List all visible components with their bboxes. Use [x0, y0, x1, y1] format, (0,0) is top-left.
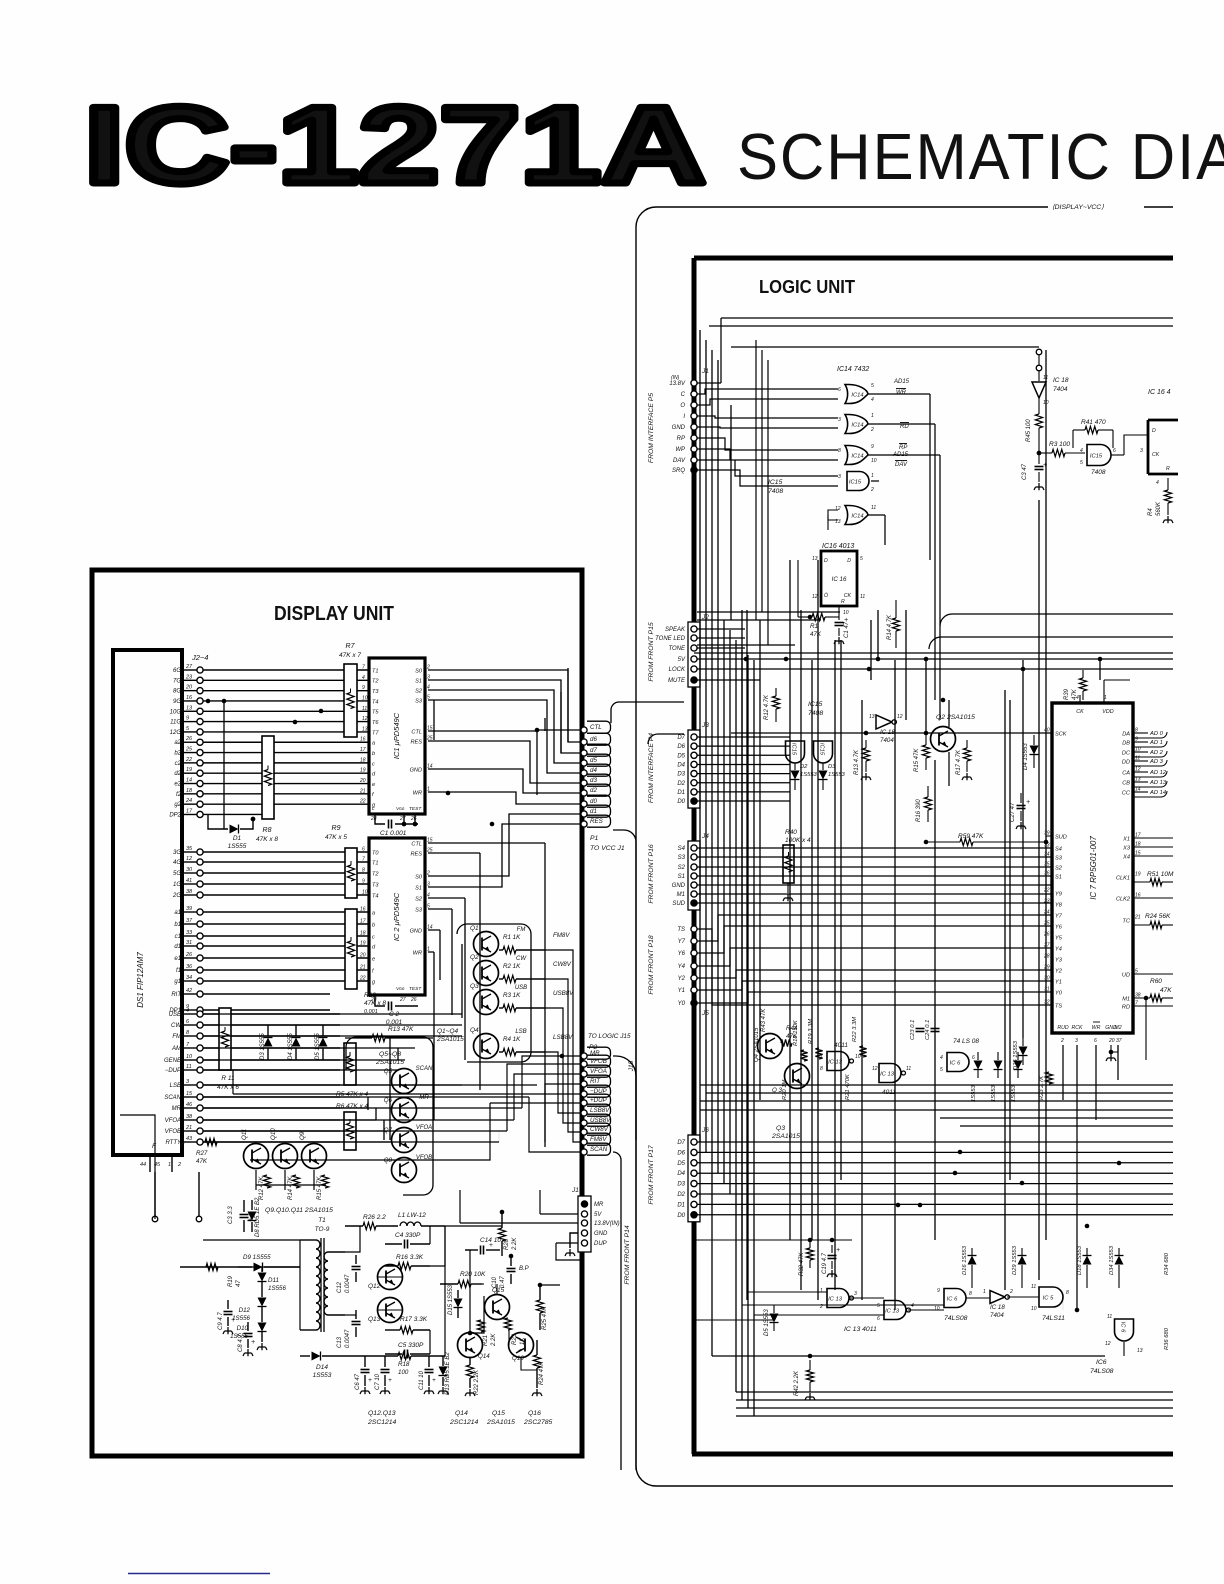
svg-text:e2: e2	[174, 782, 181, 788]
svg-text:R20 10K: R20 10K	[460, 1271, 486, 1278]
svg-text:DUP: DUP	[594, 1241, 607, 1247]
svg-text:7404: 7404	[880, 737, 894, 744]
svg-text:Y1: Y1	[1055, 979, 1062, 985]
wire channel FM8V to flag	[545, 950, 581, 1142]
svg-text:41: 41	[186, 878, 192, 884]
svg-text:D6: D6	[677, 1150, 685, 1156]
svg-text:AD 0: AD 0	[1149, 731, 1164, 737]
svg-text:S1: S1	[678, 874, 685, 880]
svg-text:33: 33	[186, 930, 193, 936]
svg-text:1K: 1K	[520, 1337, 526, 1345]
svg-text:C11 10: C11 10	[419, 1370, 425, 1390]
svg-text:c: c	[372, 934, 375, 940]
svg-text:J2~4: J2~4	[191, 653, 208, 662]
svg-text:D34 1S553: D34 1S553	[1109, 1245, 1115, 1275]
svg-text:27: 27	[399, 997, 406, 1003]
svg-text:T7: T7	[372, 730, 379, 736]
svg-text:AD 1: AD 1	[1149, 740, 1163, 746]
svg-text:2SC1214: 2SC1214	[449, 1419, 479, 1426]
svg-text:R24 47K: R24 47K	[539, 1361, 545, 1385]
net flag −DUP	[581, 1091, 587, 1097]
svg-text:47K x 8: 47K x 8	[256, 836, 278, 843]
transistor Q12	[378, 1265, 403, 1290]
svg-text:a2: a2	[174, 740, 181, 746]
wire 4G row	[203, 861, 369, 863]
svg-text:19: 19	[360, 768, 366, 774]
wire bus J2/J3 rows	[697, 629, 1173, 801]
svg-text:FROM INTERFACE P5: FROM INTERFACE P5	[648, 393, 655, 463]
connector J6 pin D7	[691, 1139, 697, 1145]
svg-text:GND: GND	[672, 883, 686, 889]
svg-text:Q9: Q9	[299, 1131, 306, 1140]
svg-text:Q14: Q14	[455, 1410, 468, 1417]
connector J5 pin Y2	[691, 975, 697, 981]
net flag AD 0	[1133, 732, 1148, 734]
svg-text:21: 21	[185, 1125, 192, 1131]
svg-text:D5 1S553: D5 1S553	[764, 1309, 770, 1336]
svg-text:3: 3	[838, 417, 841, 423]
svg-text:d2: d2	[174, 771, 181, 777]
svg-text:13: 13	[812, 556, 818, 562]
svg-text:26: 26	[410, 816, 417, 822]
wire 7G to IC1 T2	[203, 679, 369, 681]
svg-text:12: 12	[186, 856, 192, 862]
net flag d0	[581, 801, 587, 807]
connector J4 pin S4	[691, 845, 697, 851]
svg-text:IC15: IC15	[819, 743, 825, 756]
svg-text:SCAN: SCAN	[590, 1146, 608, 1153]
svg-text:AD 3: AD 3	[1149, 759, 1164, 765]
svg-text:b2: b2	[174, 751, 181, 757]
ground C1 logic	[834, 637, 844, 644]
svg-text:24: 24	[185, 798, 192, 804]
wire VFOB row	[203, 1130, 340, 1132]
svg-text:CLK2: CLK2	[1116, 896, 1131, 902]
resistor R12	[263, 1175, 270, 1188]
svg-text:DAV: DAV	[895, 462, 908, 468]
svg-text:CW: CW	[516, 956, 527, 962]
svg-text:2SA1015: 2SA1015	[771, 1133, 800, 1140]
svg-text:100K x 4: 100K x 4	[785, 837, 811, 844]
svg-text:Q10: Q10	[270, 1128, 277, 1140]
svg-text:C6 47: C6 47	[355, 1373, 361, 1390]
svg-text:IC 13: IC 13	[885, 1308, 900, 1314]
svg-text:D7: D7	[677, 735, 685, 741]
svg-text:WR: WR	[1092, 1025, 1101, 1031]
wire −DUP row	[203, 1069, 340, 1071]
transistor Q5	[392, 1069, 417, 1094]
wire bottom supply rail	[120, 1115, 155, 1219]
svg-text:5: 5	[871, 383, 874, 389]
svg-text:R17 4.7K: R17 4.7K	[956, 749, 962, 775]
svg-text:DC: DC	[1122, 750, 1131, 756]
wire bus logic mid verticals	[731, 350, 1100, 1310]
svg-text:+: +	[388, 1377, 392, 1384]
svg-text:C8 4.7: C8 4.7	[238, 1334, 244, 1352]
net flag AD 12	[1133, 771, 1148, 773]
svg-text:13: 13	[362, 726, 368, 732]
svg-text:RIT: RIT	[590, 1078, 601, 1085]
svg-text:R34 680: R34 680	[1164, 1252, 1170, 1275]
svg-text:10: 10	[362, 695, 368, 701]
ground IC7 GND	[1110, 1045, 1112, 1052]
svg-text:Y7: Y7	[1055, 913, 1063, 919]
svg-text:T2: T2	[372, 871, 379, 877]
svg-text:Q1: Q1	[470, 925, 479, 932]
wire 8G to IC1 T3	[203, 690, 369, 692]
wire 12G to IC1 T7	[203, 731, 369, 733]
svg-text:WP: WP	[675, 447, 685, 453]
connector J2 pin MUTE	[691, 677, 697, 683]
gate IC15 7408 (right)	[1087, 445, 1111, 466]
svg-text:11: 11	[186, 1064, 192, 1070]
svg-text:LSB: LSB	[515, 1029, 526, 1035]
svg-text:R: R	[841, 599, 845, 605]
svg-text:DAV: DAV	[673, 458, 686, 464]
wire P2 staircase VFOB	[507, 1064, 581, 1131]
svg-text:Q3: Q3	[470, 983, 479, 990]
wire top bus to IC18	[721, 317, 1173, 319]
transistor Q13	[378, 1298, 403, 1323]
svg-text:D29 1S553: D29 1S553	[1012, 1245, 1018, 1275]
svg-text:S0: S0	[415, 668, 423, 674]
wire bus logic lower horizontals	[712, 1356, 1173, 1416]
svg-text:R12 4.7K: R12 4.7K	[764, 694, 770, 720]
wire DS1 bottom leads	[149, 1155, 151, 1172]
svg-text:22: 22	[359, 799, 366, 805]
svg-text:RP: RP	[677, 436, 685, 442]
svg-text:R41 470: R41 470	[1081, 419, 1106, 426]
svg-text:7404: 7404	[1053, 386, 1068, 393]
wire 10G to IC1 T5	[203, 710, 369, 712]
svg-text:⟨DISPLAY~VCC⟩: ⟨DISPLAY~VCC⟩	[1052, 203, 1104, 211]
svg-text:MUTE: MUTE	[668, 678, 686, 684]
svg-text:B.P: B.P	[519, 1266, 529, 1272]
svg-text:P1: P1	[590, 835, 599, 842]
svg-text:Q16: Q16	[528, 1410, 541, 1417]
connector J1 pin SRQ	[691, 467, 697, 473]
svg-text:CC: CC	[1122, 790, 1131, 796]
transistor Q16	[509, 1333, 534, 1358]
svg-text:C24 0.1: C24 0.1	[925, 1020, 931, 1040]
svg-text:RD: RD	[1122, 1004, 1130, 1010]
net flag VFOB	[581, 1061, 587, 1067]
svg-text:1S553: 1S553	[313, 1372, 332, 1379]
wire P2 staircase +DUP	[250, 1103, 490, 1160]
svg-text:1G: 1G	[173, 882, 181, 888]
svg-text:7408: 7408	[1091, 469, 1106, 476]
net flag d1	[581, 811, 587, 817]
svg-text:DA: DA	[1122, 731, 1130, 737]
svg-text:+: +	[231, 1317, 235, 1324]
svg-text:R13 47K: R13 47K	[388, 1026, 414, 1033]
wire DP1 row	[203, 1009, 330, 1011]
svg-text:11: 11	[362, 706, 367, 712]
wire g1 row	[203, 980, 369, 982]
svg-text:Q2 2SA1015: Q2 2SA1015	[936, 714, 975, 721]
net label DISPLAY~VCC	[1048, 200, 1144, 212]
svg-text:O: O	[680, 403, 685, 409]
svg-text:8: 8	[820, 1066, 823, 1072]
svg-text:R13 4.7K: R13 4.7K	[854, 749, 860, 775]
svg-text:TS: TS	[677, 927, 685, 933]
wire P2 staircase RIT	[545, 1084, 581, 1142]
connector J3 pin D0	[691, 798, 697, 804]
wire bus extra verticals top	[756, 340, 768, 645]
wire CW row	[203, 1024, 340, 1026]
svg-text:Vɢɢ: Vɢɢ	[396, 806, 405, 812]
svg-text:FROM FRONT P17: FROM FRONT P17	[648, 1145, 655, 1205]
connector J4 pin S1	[691, 873, 697, 879]
wire row to Q12 area	[345, 1226, 360, 1252]
svg-text:S3: S3	[415, 907, 423, 913]
svg-text:UD: UD	[1122, 972, 1130, 978]
svg-text:6: 6	[838, 387, 841, 393]
wire channel CW8V to flag	[545, 979, 581, 1132]
wire b1 row	[203, 923, 369, 925]
gate IC15 #3 (vertical)	[786, 741, 805, 763]
svg-text:2SA1015: 2SA1015	[486, 1419, 515, 1426]
svg-text:C19 4.7: C19 4.7	[822, 1252, 828, 1274]
inverter IC18 7404 (mid)	[876, 715, 892, 729]
svg-text:SCAN: SCAN	[164, 1095, 181, 1101]
gate IC13 #2 4011	[879, 1064, 901, 1083]
svg-text:WR: WR	[896, 390, 907, 396]
svg-text:38: 38	[186, 1114, 193, 1120]
net flag MR	[581, 1053, 587, 1059]
svg-text:e: e	[372, 782, 375, 788]
svg-text:5: 5	[1080, 460, 1083, 466]
svg-text:d1: d1	[590, 808, 597, 815]
svg-text:Ō: Ō	[824, 592, 828, 599]
svg-text:Q12.Q13: Q12.Q13	[368, 1410, 396, 1417]
svg-text:11: 11	[860, 594, 865, 600]
svg-text:R10: R10	[364, 992, 376, 999]
svg-text:IC 13: IC 13	[880, 1071, 895, 1077]
svg-text:D4 1S553: D4 1S553	[1023, 743, 1029, 770]
svg-text:C5 330P: C5 330P	[398, 1342, 424, 1349]
connector J1 pin DAV	[691, 457, 697, 463]
svg-text:R19 3.3M: R19 3.3M	[808, 1019, 814, 1044]
wire d2 row	[203, 772, 369, 774]
wire CLK2	[1133, 897, 1173, 899]
junction dots display	[535, 728, 540, 733]
svg-text:3G: 3G	[173, 850, 181, 856]
svg-text:D1: D1	[233, 835, 242, 842]
net flag d7	[581, 750, 587, 756]
connector J2 pin SPEAK	[691, 626, 697, 632]
svg-text:SRQ: SRQ	[672, 468, 685, 474]
svg-text:27: 27	[185, 664, 193, 670]
wire a2 row	[203, 741, 369, 743]
ground R4	[1163, 516, 1173, 523]
svg-text:IC14 7432: IC14 7432	[837, 366, 869, 373]
svg-text:SCK: SCK	[1055, 731, 1067, 737]
connector J6 pin D2	[691, 1191, 697, 1197]
svg-text:R15 47K: R15 47K	[317, 1176, 323, 1200]
svg-text:R15 47K: R15 47K	[914, 748, 920, 772]
wire e1 row	[203, 957, 369, 959]
connector J3	[688, 730, 700, 808]
svg-text:Y4: Y4	[1055, 946, 1062, 952]
transistor Q10	[273, 1144, 298, 1169]
svg-text:e1: e1	[174, 956, 181, 962]
svg-text:D3: D3	[677, 772, 685, 778]
svg-text:Y0: Y0	[1055, 990, 1063, 996]
svg-text:R20 1M: R20 1M	[782, 1080, 788, 1100]
svg-text:R16 390: R16 390	[916, 799, 922, 822]
wire R1 to IC16	[798, 616, 812, 618]
svg-text:FM8V: FM8V	[553, 932, 570, 939]
svg-text:FM: FM	[517, 927, 526, 933]
svg-text:C3 47: C3 47	[1022, 463, 1028, 480]
svg-text:SCAN: SCAN	[416, 1066, 433, 1072]
wire AM row	[203, 1047, 340, 1049]
svg-text:D: D	[824, 558, 828, 564]
transistor Q11	[244, 1144, 269, 1169]
connector J5 pin Y0	[691, 1000, 697, 1006]
connector J6 pin D4	[691, 1170, 697, 1176]
svg-text:GND: GND	[594, 1231, 608, 1237]
svg-text:FROM FRONT P15: FROM FRONT P15	[648, 622, 655, 682]
svg-text:S3: S3	[678, 855, 686, 861]
connector J1 pin WP	[691, 446, 697, 452]
svg-text:USB8V: USB8V	[553, 990, 574, 997]
svg-text:2: 2	[870, 427, 874, 433]
svg-text:1: 1	[983, 1289, 986, 1295]
connector J1 pin DUP	[581, 1240, 587, 1246]
wire P2 staircase MR	[522, 1056, 581, 1108]
svg-text:1: 1	[871, 413, 874, 419]
svg-text:USB: USB	[515, 985, 527, 991]
svg-text:IC14: IC14	[851, 422, 863, 428]
svg-text:R14 47K: R14 47K	[288, 1176, 294, 1200]
svg-text:21: 21	[359, 788, 366, 794]
wire UD	[1133, 973, 1173, 975]
diode D3 1S555	[267, 1025, 269, 1036]
terminal F2	[196, 1216, 202, 1222]
capacitor C1 47 (logic)	[838, 606, 840, 614]
svg-text:R36 680: R36 680	[1164, 1327, 1170, 1350]
svg-text:8: 8	[1066, 1290, 1069, 1296]
logic unit outer cable channel	[636, 207, 1173, 1486]
svg-text:R21 470K: R21 470K	[845, 1073, 851, 1100]
svg-text:D15 1S553: D15 1S553	[448, 1284, 454, 1315]
svg-text:c2: c2	[175, 761, 182, 767]
svg-text:T3: T3	[372, 689, 379, 695]
svg-text:LOCK: LOCK	[669, 667, 686, 673]
svg-text:Y3: Y3	[1055, 957, 1063, 963]
net flag AD 1	[1133, 741, 1148, 743]
svg-text:R: R	[1166, 466, 1170, 472]
svg-text:J6: J6	[701, 1127, 709, 1134]
svg-text:R27: R27	[196, 1150, 208, 1157]
svg-text:FROM FRONT P14: FROM FRONT P14	[624, 1225, 631, 1285]
resistor network R11 47Kx6	[219, 1008, 231, 1070]
svg-text:C1 47: C1 47	[844, 621, 850, 638]
svg-text:T4: T4	[372, 699, 379, 705]
wire IC7 X pins	[1133, 837, 1173, 839]
svg-text:Q16: Q16	[512, 1355, 524, 1362]
svg-text:2: 2	[1060, 1038, 1064, 1044]
wire f1 row	[203, 969, 369, 971]
svg-text:26: 26	[185, 736, 193, 742]
svg-text:+: +	[1026, 799, 1030, 806]
svg-text:D: D	[1152, 428, 1156, 434]
svg-text:8: 8	[838, 448, 841, 454]
connector J1 pin 5V	[581, 1211, 587, 1217]
svg-text:Y8: Y8	[1055, 902, 1063, 908]
svg-text:C23 0.1: C23 0.1	[910, 1020, 916, 1040]
svg-text:D0: D0	[677, 799, 685, 805]
svg-text:IC 13 4011: IC 13 4011	[844, 1326, 877, 1333]
svg-text:R6 47K x 4: R6 47K x 4	[336, 1103, 369, 1110]
svg-text:100: 100	[398, 1369, 409, 1376]
svg-text:R24 56Κ: R24 56Κ	[1145, 913, 1171, 920]
wire 6G to IC1 T1	[203, 669, 369, 671]
svg-text:8: 8	[969, 1291, 972, 1297]
svg-text:R4: R4	[1148, 508, 1154, 516]
svg-text:d1: d1	[174, 944, 181, 950]
svg-text:AD 14: AD 14	[1149, 790, 1166, 796]
svg-text:47: 47	[236, 1280, 242, 1287]
svg-text:IC 6: IC 6	[950, 1060, 961, 1066]
net flag LSB8V	[581, 1110, 587, 1116]
svg-text:SUD: SUD	[672, 901, 685, 907]
svg-text:26: 26	[185, 952, 193, 958]
wire channel USB8V to flag	[545, 1008, 581, 1123]
svg-text:74LS08: 74LS08	[944, 1315, 968, 1322]
svg-text:b1: b1	[174, 922, 181, 928]
svg-text:LSB8V: LSB8V	[590, 1107, 610, 1114]
svg-text:R60: R60	[1150, 978, 1162, 985]
svg-text:D1: D1	[677, 1202, 685, 1208]
svg-text:c1: c1	[175, 934, 181, 940]
diode D1 1S555	[208, 814, 228, 829]
wire LSB row	[203, 1084, 340, 1086]
svg-text:DB: DB	[1122, 740, 1130, 746]
svg-text:USB: USB	[169, 1012, 181, 1018]
ground R17	[962, 773, 972, 780]
resistor network R8 47Kx8	[262, 736, 274, 819]
svg-text:−DUP: −DUP	[165, 1068, 181, 1074]
wire IC15 out to IC16	[1111, 454, 1124, 456]
svg-text:6: 6	[877, 1316, 880, 1322]
svg-text:FROM FRONT P16: FROM FRONT P16	[648, 844, 655, 904]
svg-text:47K: 47K	[1160, 987, 1172, 994]
wire SCAN row	[203, 1096, 340, 1098]
svg-text:37: 37	[1116, 1038, 1122, 1044]
svg-text:3: 3	[854, 1291, 857, 1297]
svg-text:R17 3.3K: R17 3.3K	[400, 1316, 428, 1323]
svg-text:d6: d6	[590, 736, 597, 743]
svg-text:CK: CK	[1152, 452, 1160, 458]
connector J4 pin S2	[691, 864, 697, 870]
svg-text:D4 1S555: D4 1S555	[288, 1033, 294, 1060]
transistor Q1	[474, 932, 499, 957]
svg-text:7408: 7408	[768, 488, 783, 495]
svg-text:d2: d2	[590, 787, 597, 794]
svg-text:TO-9: TO-9	[315, 1226, 330, 1233]
wire bus logic top horizontals	[694, 652, 1173, 654]
svg-text:Q6: Q6	[384, 1097, 393, 1104]
gate IC13 #4 4011	[884, 1301, 906, 1320]
connector J2 pin TONE LED	[691, 635, 697, 641]
svg-text:12: 12	[362, 716, 368, 722]
svg-text:12G: 12G	[170, 730, 182, 736]
svg-text:8G: 8G	[173, 689, 181, 695]
svg-text:35: 35	[186, 846, 193, 852]
